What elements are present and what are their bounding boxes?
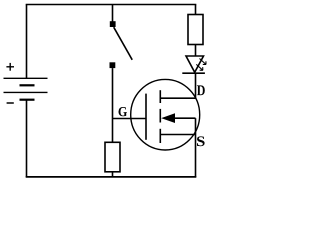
switch SW1 [110, 21, 133, 68]
resistor R1 [188, 15, 203, 45]
battery BT1 [4, 78, 48, 99]
LED D1 [182, 56, 206, 73]
wire gate lead [113, 118, 147, 120]
mosfet Q1 channel middle dash [159, 109, 161, 123]
wire switch stub top [112, 5, 114, 22]
wire right stub to resistor [195, 5, 197, 15]
wire resistor to LED [195, 45, 197, 57]
mosfet Q1 source lead [160, 134, 195, 136]
mosfet Q1 body arrow [161, 113, 175, 123]
wire top [26, 4, 197, 6]
wire body to source [195, 118, 197, 134]
resistor R2 [105, 142, 120, 172]
label G [118, 107, 126, 116]
mosfet Q1 drain lead [160, 97, 195, 99]
wire left rail lower [26, 100, 28, 178]
label - [7, 102, 14, 104]
mosfet Q1 body lead [174, 117, 196, 119]
mosfet Q1 channel top dash [159, 90, 161, 103]
wire resistor to bottom [112, 172, 114, 177]
mosfet Q1 channel bottom dash [159, 129, 161, 143]
label + [6, 63, 14, 71]
wire switch to resistor rail [112, 68, 114, 142]
mosfet Q1 body circle [131, 79, 200, 150]
label D [197, 85, 205, 95]
wire source to bottom [195, 135, 197, 178]
mosfet Q1 gate bar [145, 94, 147, 140]
wire bottom [26, 176, 197, 178]
label S [197, 136, 205, 146]
wire left rail upper [26, 5, 28, 79]
wire LED to drain [195, 73, 197, 98]
